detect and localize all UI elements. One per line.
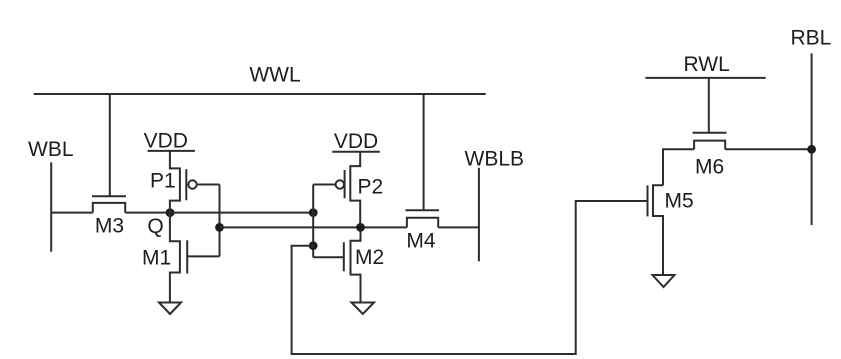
- power VDD (left): [144, 130, 195, 153]
- svg-text:M1: M1: [142, 246, 171, 269]
- svg-text:WBLB: WBLB: [465, 147, 525, 170]
- svg-text:Q: Q: [147, 215, 163, 238]
- transistor M3: [92, 94, 126, 237]
- wire M3 drain to node Q: [125, 212, 170, 214]
- wire M6 source to M5 drain: [663, 149, 694, 185]
- svg-text:M2: M2: [355, 246, 384, 269]
- transistor P1: [150, 151, 197, 213]
- junction dot gate column on QB rail: [215, 223, 224, 232]
- svg-text:M4: M4: [406, 229, 435, 252]
- power VDD (right): [332, 130, 380, 153]
- transistor M6: [693, 78, 727, 179]
- junction dot node QB: [356, 223, 365, 232]
- junction dot M6 to RBL: [807, 145, 816, 154]
- wire WWL rail: [34, 93, 486, 95]
- wire M1 gate to gate column: [187, 255, 219, 257]
- transistor M1: [142, 213, 187, 303]
- wire M2 gate connection: [313, 256, 344, 258]
- wire WBLB bit line: [478, 168, 480, 262]
- wire QB rail: [220, 226, 407, 228]
- wire M6 drain to RBL: [725, 148, 811, 150]
- svg-text:P1: P1: [150, 170, 176, 193]
- wire Q-side gate column: [312, 185, 314, 258]
- transistor M4: [406, 94, 440, 252]
- svg-text:WBL: WBL: [28, 138, 74, 161]
- svg-text:RWL: RWL: [684, 53, 730, 76]
- svg-text:P2: P2: [358, 175, 384, 198]
- svg-text:WWL: WWL: [249, 64, 300, 87]
- node Q junction dot: [166, 208, 175, 217]
- svg-text:RBL: RBL: [791, 27, 832, 50]
- ground below M1: [159, 303, 181, 315]
- wire feedback QBar to M5 gate: [292, 201, 648, 354]
- wire P2 gate to Q gate column: [313, 184, 335, 186]
- ground below M2: [352, 303, 375, 315]
- svg-text:VDD: VDD: [334, 130, 378, 153]
- wire RWL rail: [645, 77, 765, 79]
- junction dot feedback tap: [309, 241, 318, 250]
- transistor M2: [344, 227, 384, 302]
- svg-text:M6: M6: [695, 156, 724, 179]
- transistor M5: [648, 185, 694, 275]
- wire M4 to WBLB: [438, 226, 479, 228]
- wire node Q rail: [170, 212, 313, 214]
- wire WBL bit line: [50, 162, 52, 251]
- svg-text:M5: M5: [665, 190, 694, 213]
- wire WBL to M3 source: [51, 212, 93, 214]
- junction dot Q rail to P2 gate: [309, 208, 318, 217]
- wire P1 gate to gate column: [197, 184, 220, 186]
- transistor P2: [336, 152, 384, 228]
- ground below M5: [653, 275, 675, 287]
- wire RBL read bit line: [811, 53, 813, 225]
- svg-text:VDD: VDD: [144, 130, 188, 153]
- svg-text:M3: M3: [95, 214, 124, 237]
- wire P1-M1 gate column: [219, 185, 221, 257]
